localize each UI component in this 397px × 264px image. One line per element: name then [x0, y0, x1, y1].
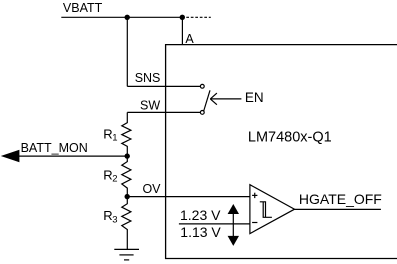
svg-text:1.23 V: 1.23 V	[180, 207, 221, 223]
junction dot at node A tap	[180, 15, 185, 20]
resistor R3 label	[103, 208, 117, 225]
resistor R2	[122, 156, 131, 197]
wire node A to IC top	[181, 17, 183, 44]
EN control arrow	[210, 93, 241, 105]
junction dot BATT_MON tap	[125, 153, 130, 158]
wire dashed VBATT continuation	[186, 16, 211, 18]
wire SNS pin	[127, 85, 200, 87]
svg-text:2: 2	[112, 174, 117, 185]
switch S1 contact circle SNS side	[200, 84, 204, 88]
BATT_MON output arrow	[1, 150, 20, 162]
wire SW pin	[127, 111, 200, 113]
switch S1 blade	[204, 90, 210, 111]
comparator U2	[250, 185, 295, 234]
svg-text:SW: SW	[140, 98, 160, 112]
svg-text:LM7480x-Q1: LM7480x-Q1	[248, 129, 332, 145]
wire HGATE_OFF output	[295, 208, 381, 210]
hysteresis symbol	[260, 202, 272, 218]
svg-text:EN: EN	[245, 90, 264, 105]
threshold range arrows	[228, 204, 239, 246]
comparator - input marker	[252, 222, 257, 224]
resistor R3	[122, 197, 131, 250]
svg-text:SNS: SNS	[135, 71, 161, 85]
ground	[114, 249, 139, 260]
svg-text:3: 3	[112, 214, 117, 225]
svg-text:OV: OV	[142, 182, 161, 196]
wire VBATT horizontal	[61, 16, 182, 18]
wire OV pin	[127, 196, 250, 198]
resistor R1 label	[103, 126, 117, 143]
resistor R2 label	[103, 167, 117, 184]
svg-text:1: 1	[112, 133, 117, 144]
junction dot OV tap	[125, 194, 130, 199]
resistor R1	[122, 112, 131, 156]
svg-text:HGATE_OFF: HGATE_OFF	[299, 191, 382, 207]
wire VBATT down to SNS	[126, 17, 128, 86]
wire comparator reference input	[179, 223, 250, 225]
comparator + input marker	[252, 193, 257, 198]
IC U1 LM7480x-Q1 box	[166, 45, 397, 259]
svg-text:1.13 V: 1.13 V	[180, 224, 221, 240]
svg-text:VBATT: VBATT	[63, 1, 103, 15]
junction dot at VBATT/SNS tap	[125, 15, 130, 20]
wire BATT_MON	[18, 155, 127, 157]
switch S1 contact circle SW side	[200, 111, 204, 115]
svg-text:BATT_MON: BATT_MON	[21, 141, 88, 155]
